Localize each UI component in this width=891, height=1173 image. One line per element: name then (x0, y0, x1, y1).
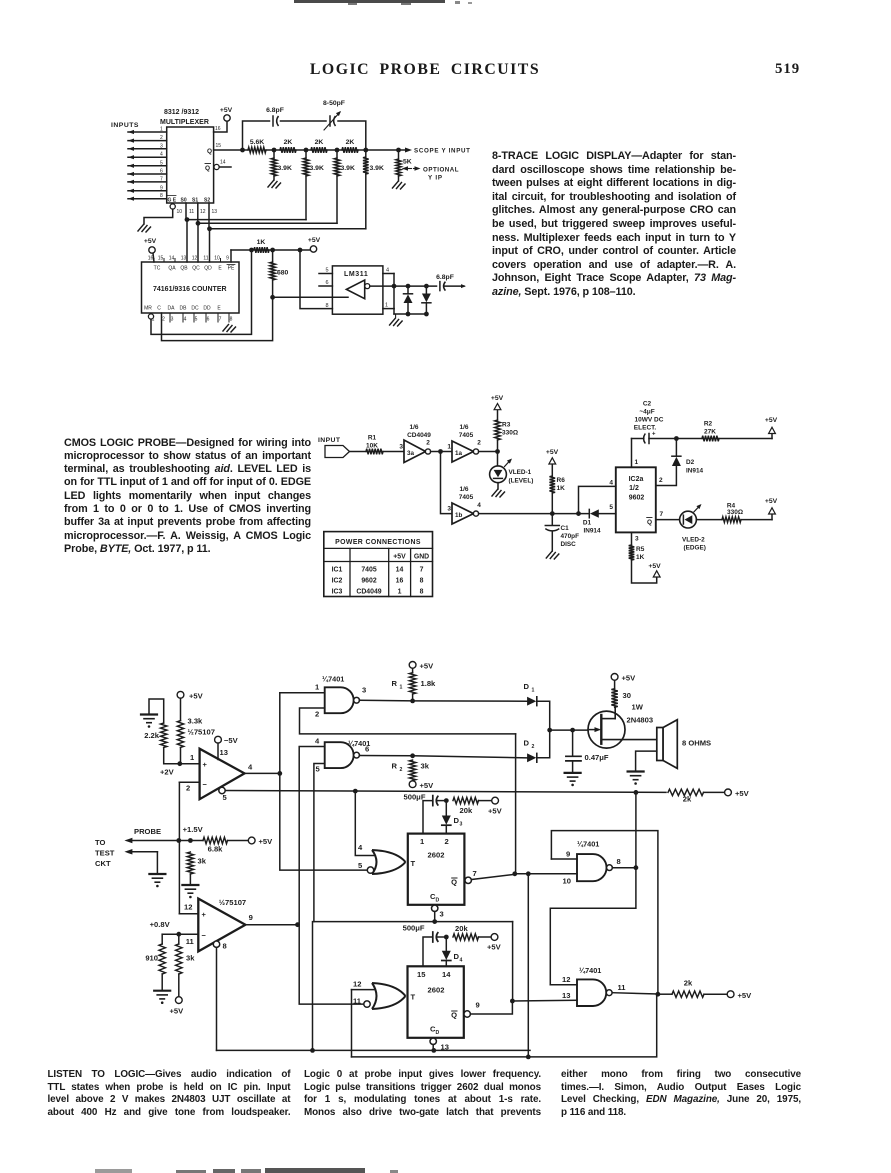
wire bus latch bottom (352, 994, 657, 1059)
svg-text:13: 13 (212, 209, 218, 215)
power +5V R3 (491, 395, 504, 410)
wire to 1b (441, 452, 453, 514)
svg-text:MULTIPLEXER: MULTIPLEXER (160, 119, 209, 126)
svg-text:1/6: 1/6 (459, 424, 468, 431)
diode clamp down (422, 286, 431, 314)
svg-text:6: 6 (325, 280, 328, 286)
svg-text:3.9K: 3.9K (278, 165, 292, 172)
comparator 1 half 75107 (200, 749, 245, 800)
wire strobe line comp1 pin5 (225, 789, 666, 795)
svg-text:QC: QC (192, 266, 200, 272)
resistor 2K a (274, 139, 306, 153)
svg-text:1: 1 (190, 753, 195, 762)
svg-text:Q: Q (451, 878, 457, 887)
svg-text:DD: DD (203, 306, 211, 312)
svg-text:9: 9 (249, 913, 253, 922)
wire bus comp2 pin8 (217, 1048, 531, 1053)
svg-text:5: 5 (223, 793, 228, 802)
label PROBE (134, 825, 204, 836)
svg-text:+5V: +5V (622, 674, 637, 683)
svg-text:9: 9 (476, 1001, 480, 1010)
NAND3 output 8 (612, 857, 638, 870)
wire NAND3 out pull-up (635, 792, 637, 867)
svg-text:3: 3 (447, 506, 451, 513)
wire input line 3 with arrow (128, 143, 167, 151)
svg-text:7405: 7405 (459, 432, 474, 439)
wire select bus S1 (196, 203, 337, 262)
svg-text:~4μF: ~4μF (639, 409, 654, 416)
OR1 pin4 (355, 791, 375, 855)
svg-text:13: 13 (562, 991, 570, 1000)
svg-text:7: 7 (473, 869, 477, 878)
svg-text:R: R (392, 762, 398, 771)
wire NAND4 out to NAND3 pin9 (551, 831, 658, 995)
svg-text:2: 2 (477, 440, 481, 447)
capacitor 6.8pF output (436, 274, 466, 291)
svg-text:¼7401: ¼7401 (579, 966, 601, 975)
svg-text:11: 11 (203, 256, 208, 262)
wire select bus S2 (207, 203, 366, 262)
comparator2 pin8 (213, 941, 226, 1050)
comparator1 output pin4 (245, 763, 283, 776)
svg-text:1/6: 1/6 (459, 486, 468, 493)
svg-text:0.47μF: 0.47μF (585, 753, 609, 762)
resistor 3.3k (177, 717, 215, 764)
bottom column 2 (0, 0, 891, 1)
svg-text:+5V: +5V (308, 237, 321, 244)
mono1 pin3 (432, 905, 444, 924)
OR gate trigger mono1 (367, 850, 405, 874)
svg-text:2: 2 (532, 744, 535, 750)
svg-text:500μF: 500μF (403, 924, 425, 933)
svg-text:1: 1 (398, 589, 402, 596)
svg-text:330Ω: 330Ω (502, 430, 518, 437)
wire mono1 pin3 to mono2 node (512, 922, 514, 1001)
svg-text:1W: 1W (632, 703, 644, 712)
IC 74161/9316 counter (142, 262, 240, 313)
resistor 20k mono2 (453, 924, 502, 952)
capacitor 500uF mono1 (404, 793, 449, 834)
speaker ground (628, 751, 657, 785)
svg-text:+5V: +5V (765, 498, 778, 505)
svg-text:+5V: +5V (220, 107, 233, 114)
IC2a 9602 mono (609, 467, 655, 532)
svg-text:8: 8 (223, 942, 227, 951)
svg-text:+5V: +5V (420, 781, 435, 790)
svg-text:IC2: IC2 (332, 578, 343, 585)
svg-text:IC2a: IC2a (629, 476, 644, 483)
svg-text:D: D (524, 682, 530, 691)
svg-text:D: D (524, 739, 530, 748)
LM311 pin 4 stub (383, 268, 394, 309)
svg-text:INPUT: INPUT (318, 437, 341, 444)
svg-text:DC: DC (191, 306, 199, 312)
svg-text:12: 12 (200, 209, 206, 215)
diode clamp up (404, 286, 413, 314)
svg-text:R: R (392, 679, 398, 688)
wire LM311 output (370, 284, 437, 289)
wire probe vertical (178, 782, 180, 913)
svg-text:5: 5 (195, 317, 198, 323)
svg-text:8 OHMS: 8 OHMS (682, 739, 711, 748)
wire top bus to caps (243, 121, 366, 150)
NAND4 output 11 (612, 983, 660, 997)
resistor 5.6K (243, 139, 275, 153)
wire clock pin2 loop (162, 297, 273, 340)
wire TO TEST CKT arrows (124, 838, 178, 873)
NAND gate 2 quarter 7401 (325, 739, 371, 768)
diode D2 (413, 730, 550, 762)
svg-text:8: 8 (617, 857, 621, 866)
svg-text:4: 4 (386, 268, 389, 274)
svg-text:7: 7 (219, 317, 222, 323)
svg-text:¼7401: ¼7401 (322, 675, 344, 684)
NAND2 output 6 (359, 745, 415, 759)
resistor R1 10K (350, 435, 405, 455)
svg-text:4: 4 (609, 480, 613, 487)
svg-text:11: 11 (189, 209, 194, 215)
svg-text:R1: R1 (368, 435, 377, 442)
svg-text:1b: 1b (455, 512, 463, 519)
wire input line 2 with arrow (128, 135, 167, 143)
page number (775, 61, 800, 78)
resistor 1K (254, 239, 302, 253)
svg-text:3: 3 (399, 444, 403, 451)
counter pin 8 ground (223, 325, 236, 333)
svg-text:1: 1 (635, 459, 639, 466)
svg-text:15: 15 (417, 970, 426, 979)
capacitor 6.8pF (266, 107, 284, 126)
svg-text:E: E (218, 266, 222, 272)
svg-text:2: 2 (315, 710, 319, 719)
svg-text:QB: QB (180, 266, 188, 272)
svg-text:1: 1 (400, 685, 403, 691)
svg-text:+5V: +5V (491, 395, 504, 402)
wire optional Y IP arrow (402, 166, 459, 181)
wire input line 9 with arrow (128, 193, 167, 201)
svg-text:5: 5 (160, 160, 163, 166)
svg-text:9602: 9602 (629, 495, 645, 502)
counter bottom pin 7 (218, 313, 222, 323)
svg-text:12: 12 (562, 975, 570, 984)
counter top pin 13 (181, 256, 187, 263)
svg-text:11: 11 (618, 983, 627, 992)
NAND gate 4 quarter 7401 (577, 966, 612, 1006)
label TO TEST CKT (95, 838, 115, 868)
resistor 680 (270, 250, 289, 300)
svg-text:PE: PE (228, 266, 235, 272)
svg-text:5: 5 (316, 765, 321, 774)
svg-text:5K: 5K (403, 159, 412, 166)
svg-text:1: 1 (532, 688, 535, 694)
svg-text:500μF: 500μF (404, 793, 426, 802)
page header title (260, 61, 590, 79)
speaker 8 OHMS (657, 720, 711, 769)
svg-text:TC: TC (154, 266, 161, 272)
svg-text:E: E (217, 306, 221, 312)
svg-text:IC3: IC3 (332, 589, 343, 596)
NAND1 pin1 (280, 683, 325, 693)
svg-text:+2V: +2V (160, 768, 175, 777)
svg-text:¼7401: ¼7401 (577, 840, 599, 849)
diode D1 IN914 (583, 509, 616, 534)
svg-text:+: + (202, 910, 207, 919)
svg-text:QA: QA (168, 266, 176, 272)
svg-text:10WV DC: 10WV DC (635, 417, 664, 424)
wire input line 6 with arrow (128, 169, 167, 177)
svg-text:½75107: ½75107 (188, 728, 215, 737)
svg-text:30: 30 (623, 691, 631, 700)
svg-text:5: 5 (325, 268, 328, 274)
svg-text:7: 7 (160, 176, 163, 182)
mux enable pin 10 to ground (138, 204, 217, 232)
counter bottom pin 2 (162, 317, 165, 323)
svg-text:+1.5V: +1.5V (183, 825, 204, 834)
resistor R2 27K (676, 421, 772, 442)
svg-text:1/2: 1/2 (629, 485, 639, 492)
LED VLED-1 LEVEL (490, 452, 534, 498)
svg-text:3k: 3k (186, 954, 195, 963)
OR2 pin11 label (353, 997, 362, 1006)
svg-text:1: 1 (315, 683, 320, 692)
OR2 pin12 (352, 980, 376, 1057)
inverter 1b 7405 (447, 486, 481, 524)
svg-text:2: 2 (426, 440, 430, 447)
svg-text:−5V: −5V (224, 736, 239, 745)
resistor 3.9K no.1 with ground (268, 150, 292, 188)
svg-text:7: 7 (420, 567, 424, 574)
resistor 5K optional tap (393, 150, 412, 189)
svg-text:20k: 20k (460, 806, 473, 815)
svg-text:13: 13 (220, 748, 228, 757)
counter bottom pin 6 (206, 313, 210, 323)
svg-text:Q: Q (205, 165, 210, 172)
resistor 2K b (306, 139, 337, 153)
diode D3 (442, 801, 463, 834)
bottom column 1 (0, 0, 891, 1)
svg-text:½75107: ½75107 (219, 898, 246, 907)
svg-text:2: 2 (162, 317, 165, 323)
svg-text:IN914: IN914 (583, 528, 600, 535)
svg-text:TO: TO (95, 838, 106, 847)
svg-text:4: 4 (477, 502, 481, 509)
wire diode bottoms to ground (390, 312, 429, 326)
svg-text:+5V: +5V (487, 943, 502, 952)
mono2 pin13 (430, 1038, 449, 1053)
counter top pin 12 (192, 256, 198, 263)
counter bottom pin 3 (170, 313, 174, 323)
capacitor C1 470pF (545, 514, 579, 559)
capacitor C2 4uF (632, 401, 679, 444)
svg-text:Q: Q (451, 1011, 457, 1020)
counter bottom pin 4 (183, 313, 187, 323)
svg-text:11: 11 (186, 937, 195, 946)
counter top pin 10 (214, 256, 220, 263)
svg-text:2: 2 (186, 784, 190, 793)
svg-text:Q: Q (647, 519, 652, 526)
svg-text:6: 6 (365, 745, 369, 754)
svg-text:14: 14 (442, 970, 451, 979)
svg-text:R2: R2 (704, 421, 713, 428)
wire mux Qbar pin 14 stub (214, 160, 231, 170)
svg-text:POWER CONNECTIONS: POWER CONNECTIONS (335, 539, 421, 546)
node after 3a (431, 449, 452, 454)
svg-text:10K: 10K (366, 443, 378, 450)
svg-text:14: 14 (396, 567, 404, 574)
svg-text:2K: 2K (315, 139, 324, 146)
power +5V mux pin 16 (214, 107, 233, 132)
svg-text:+5V: +5V (765, 417, 778, 424)
wire input line 5 with arrow (128, 160, 167, 168)
svg-text:3: 3 (440, 910, 444, 919)
svg-text:1K: 1K (257, 239, 266, 246)
svg-text:+5V: +5V (488, 807, 503, 816)
svg-text:9: 9 (226, 256, 229, 262)
svg-text:15: 15 (216, 143, 222, 149)
svg-text:+5V: +5V (144, 238, 157, 245)
node b (304, 148, 309, 153)
resistor 2.2k (144, 723, 180, 764)
IC2a Qbar pin7 to LED (647, 511, 680, 526)
power +5V R2 (765, 417, 778, 439)
node after 5.6K (272, 148, 277, 153)
svg-text:Q: Q (207, 148, 212, 155)
LM311 pin 5 stub (319, 268, 332, 274)
wire pin4 feedback (579, 480, 616, 514)
capacitor 0.47uF (565, 730, 609, 786)
wire mono1 Q to NAND2 pin2 (515, 734, 517, 874)
svg-text:910: 910 (145, 954, 158, 963)
svg-text:D2: D2 (686, 459, 695, 466)
svg-text:3: 3 (362, 686, 366, 695)
mono2 2602 (408, 966, 464, 1038)
svg-text:1: 1 (160, 127, 163, 133)
svg-text:DB: DB (180, 306, 188, 312)
comparator2 pin11 (162, 932, 198, 946)
inverter 3a CD4049 (399, 424, 431, 463)
comparator1 pin1 input (180, 753, 200, 764)
resistor 3k probe (187, 852, 207, 884)
OR1 pin5 label (358, 861, 363, 870)
power +5V counter pin 16 (144, 238, 157, 262)
diode D1 (413, 682, 552, 732)
resistor 3.9K no.2 (303, 150, 324, 220)
svg-text:20k: 20k (455, 924, 468, 933)
resistor R3 330 (495, 410, 518, 452)
resistor 3.9K no.4 (363, 150, 384, 229)
svg-text:G E: G E (168, 198, 177, 204)
svg-text:OPTIONAL: OPTIONAL (423, 167, 459, 174)
comparator2 pin12 (179, 903, 198, 914)
counter bottom pin 1 (152, 317, 155, 323)
svg-text:3.9K: 3.9K (370, 165, 384, 172)
bottom column 3 (0, 0, 891, 1)
wire 680 node to comparator input (273, 296, 348, 298)
svg-text:9602: 9602 (361, 578, 376, 585)
wire NAND1-pin1 vertical (280, 693, 367, 870)
resistor R1 1.8k (392, 662, 437, 704)
svg-text:4: 4 (160, 152, 163, 158)
wire NAND2-pin4 vertical to comp2 (299, 747, 364, 1005)
svg-text:+5V: +5V (735, 789, 750, 798)
comparator1 pin2 input (179, 782, 199, 792)
wire NAND3 out to NAND4 pin12 (550, 868, 636, 985)
svg-text:6.8pF: 6.8pF (266, 107, 284, 114)
svg-text:15: 15 (158, 256, 164, 262)
svg-text:1K: 1K (557, 485, 566, 492)
svg-text:14: 14 (220, 160, 226, 166)
wire NAND2-pin5 column to bus (312, 922, 314, 1051)
diode D4 (442, 937, 463, 966)
resistor R5 1K (629, 532, 657, 583)
table power connections (324, 532, 433, 597)
LM311 pin 1 stub (383, 284, 397, 314)
transistor 2N4803 UJT (588, 707, 657, 748)
svg-text:IN914: IN914 (686, 468, 703, 475)
svg-text:+5V: +5V (546, 449, 559, 456)
node emitter (550, 728, 590, 733)
svg-text:10: 10 (214, 256, 220, 262)
svg-text:C1: C1 (561, 525, 570, 532)
resistor 910 (145, 934, 165, 990)
node c (335, 148, 340, 153)
wire 1b output line (479, 511, 590, 516)
svg-text:DA: DA (168, 306, 176, 312)
power +5V R4 (765, 498, 778, 520)
svg-text:680: 680 (277, 270, 289, 277)
comparator1 strobe pin5 (219, 787, 228, 802)
NAND gate 3 quarter 7401 (577, 840, 612, 882)
svg-text:27K: 27K (704, 429, 716, 436)
svg-text:2602: 2602 (428, 851, 445, 860)
svg-text:CD4049: CD4049 (356, 589, 381, 596)
svg-text:1: 1 (385, 303, 388, 309)
counter bottom pin 5 (194, 313, 198, 323)
resistor 30 1W (611, 674, 644, 712)
wire 1a out to R3/LED node (479, 449, 500, 454)
wire pin3 line (314, 921, 513, 923)
IC mux 8312/9312 multiplexer (160, 109, 214, 204)
svg-text:7: 7 (660, 511, 664, 518)
node probe (176, 838, 203, 843)
svg-text:Y IP: Y IP (428, 175, 443, 182)
comparator 2 half 75107 (198, 898, 246, 951)
ground 910 (154, 991, 170, 1004)
svg-text:(EDGE): (EDGE) (684, 545, 706, 552)
svg-text:ELECT.: ELECT. (634, 425, 657, 432)
capacitor 8-50pF trimmer (323, 100, 345, 130)
svg-text:+0.8V: +0.8V (150, 920, 171, 929)
counter top pin 15 (158, 256, 164, 263)
svg-text:3.3k: 3.3k (188, 717, 204, 726)
svg-text:5.6K: 5.6K (250, 139, 264, 146)
NAND1 output 3 (359, 686, 412, 701)
svg-text:4: 4 (248, 763, 253, 772)
node +2V (160, 761, 182, 776)
IC2a pin1 stub (632, 439, 639, 468)
svg-text:8: 8 (325, 303, 328, 309)
wire scope y input arrow (399, 148, 471, 155)
svg-text:2k: 2k (684, 979, 693, 988)
svg-text:3: 3 (171, 317, 174, 323)
svg-text:10: 10 (177, 209, 183, 215)
svg-text:14: 14 (169, 256, 175, 262)
NAND gate 1 quarter 7401 (322, 675, 359, 714)
mono1 2602 (408, 834, 465, 905)
inverter 1a 7405 (447, 424, 481, 462)
svg-text:8: 8 (420, 589, 424, 596)
svg-text:T: T (411, 993, 416, 1002)
